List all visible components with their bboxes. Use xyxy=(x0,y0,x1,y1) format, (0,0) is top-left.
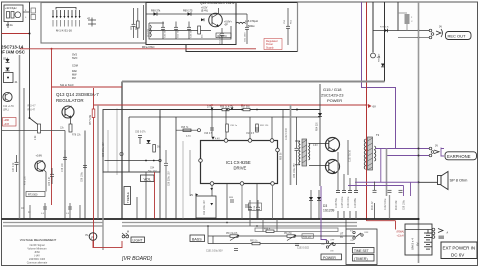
bus line xyxy=(3,225,103,227)
wire B+ feed xyxy=(372,2,374,53)
svg-text:C99 100u 10V: C99 100u 10V xyxy=(204,200,206,215)
node junction xyxy=(418,148,420,150)
svg-text:0.1u: 0.1u xyxy=(254,205,256,210)
IC1 pins top xyxy=(224,139,228,143)
wire riser xyxy=(189,150,191,196)
trimmer block xyxy=(31,15,36,20)
svg-text:R77 1.5k: R77 1.5k xyxy=(89,114,92,125)
wire xyxy=(256,184,258,219)
svg-text:C102 0.047: C102 0.047 xyxy=(286,127,288,140)
wire purple power switch line xyxy=(321,186,326,241)
switch POWER contacts xyxy=(326,241,328,243)
svg-text:+3V8: +3V8 xyxy=(4,124,10,126)
jack EARPHONE plug xyxy=(434,150,439,154)
svg-text:R47: R47 xyxy=(136,25,138,30)
svg-text:+33 15µH: +33 15µH xyxy=(5,6,16,10)
speaker SP xyxy=(438,176,442,185)
svg-text:3V: 3V xyxy=(435,145,438,148)
svg-text:C50 70p: C50 70p xyxy=(178,29,180,38)
resistor R97 xyxy=(243,108,250,111)
connector REC OUT xyxy=(446,32,472,40)
control BASS xyxy=(190,235,205,242)
connector EARPHONE xyxy=(445,152,477,160)
svg-text:0.6V: 0.6V xyxy=(313,145,318,147)
svg-text:R94 220: R94 220 xyxy=(317,122,319,131)
svg-text:EARPHONE: EARPHONE xyxy=(447,154,471,159)
shield bus xyxy=(19,55,21,219)
svg-text:C104 45u: C104 45u xyxy=(355,197,357,208)
svg-text:50u 10V: 50u 10V xyxy=(148,171,157,173)
IC1 block xyxy=(201,141,278,184)
resistor R18 xyxy=(38,124,41,133)
node junction xyxy=(366,104,368,106)
svg-text:SVO: SVO xyxy=(72,57,77,60)
node junction xyxy=(418,155,420,157)
IC1 pin arrow xyxy=(211,137,214,140)
svg-text:C47 0.02: C47 0.02 xyxy=(13,162,15,172)
tuner block outline xyxy=(41,3,146,44)
jack DC plug xyxy=(438,229,443,233)
svg-text:R96 1k: R96 1k xyxy=(220,107,228,109)
box antenna unit xyxy=(4,5,23,22)
wire xyxy=(384,2,386,82)
svg-text:[VR BOARD]: [VR BOARD] xyxy=(121,256,153,262)
oscillator outer wall bottom xyxy=(186,45,298,52)
wire purple drop1 xyxy=(380,149,382,183)
wire xyxy=(282,110,284,219)
svg-text:R79 4.7k: R79 4.7k xyxy=(380,27,390,29)
wire purple B line xyxy=(362,2,396,149)
capacitor C66 xyxy=(50,168,54,184)
capacitor bank plates xyxy=(336,191,358,193)
wire emitter loop xyxy=(44,170,47,192)
wire xyxy=(159,117,161,219)
resistor R99 xyxy=(266,230,274,233)
svg-text:SP 8 Ohm: SP 8 Ohm xyxy=(450,178,468,183)
svg-text:1S1209: 1S1209 xyxy=(323,209,335,213)
diode D2 xyxy=(6,68,10,71)
svg-text:+12uH: +12uH xyxy=(397,234,404,237)
svg-text:R97 560: R97 560 xyxy=(241,107,250,109)
wire xyxy=(23,11,30,13)
voltage arrow 4.7V xyxy=(231,108,234,111)
note voltage measurement xyxy=(20,238,57,265)
wire diagonal xyxy=(30,118,39,125)
svg-text:(R98A): (R98A) xyxy=(397,231,405,234)
resistor R95 xyxy=(153,145,156,153)
switch S1 pin arrows xyxy=(52,16,81,18)
svg-text:TREBLE: TREBLE xyxy=(126,192,130,203)
wire earphone return xyxy=(387,155,431,157)
voltage arrow 3.7V xyxy=(211,108,214,111)
capacitor bank wires xyxy=(337,152,339,190)
resistor R93 xyxy=(256,124,259,132)
svg-text:C98 100u: C98 100u xyxy=(404,199,406,210)
transistor Q16 xyxy=(326,160,340,174)
wire secondary gray xyxy=(386,149,388,197)
node junction xyxy=(366,149,368,151)
wire purple bus2 xyxy=(348,185,404,187)
wire base Q16 xyxy=(309,165,329,167)
svg-text:REGULATOR: REGULATOR xyxy=(56,98,84,103)
svg-text:Q13 Q14 2SD883A-7: Q13 Q14 2SD883A-7 xyxy=(56,92,99,97)
wire base Q15 xyxy=(309,143,329,145)
capacitor C93 xyxy=(256,200,260,219)
svg-text:BASS: BASS xyxy=(192,238,202,242)
gray rail right of IC xyxy=(290,105,292,185)
capacitor C107 xyxy=(347,140,349,175)
wire xyxy=(249,117,251,139)
tone network top wire xyxy=(208,235,355,237)
transistor Q15 xyxy=(326,138,340,152)
battery B1 xyxy=(424,230,432,250)
IC1 pins left xyxy=(199,159,203,163)
ground bus heavy xyxy=(2,218,419,220)
wire xyxy=(70,118,72,125)
svg-text:R100 1M: R100 1M xyxy=(396,201,398,210)
wire osc tank mid xyxy=(149,30,211,32)
svg-text:R76 100: R76 100 xyxy=(25,176,27,185)
IC1 pins bottom xyxy=(210,182,214,186)
wire xyxy=(374,203,376,219)
svg-text:M: M xyxy=(127,232,129,234)
diode D9 xyxy=(210,188,213,190)
svg-text:OFF: OFF xyxy=(364,232,369,234)
svg-text:R95 7k: R95 7k xyxy=(181,127,189,129)
wire xyxy=(2,130,65,132)
svg-text:R68 37k: R68 37k xyxy=(151,10,161,13)
diode D3 xyxy=(309,197,313,200)
wire xyxy=(389,195,391,219)
wire bus vertical xyxy=(29,2,31,118)
wire xyxy=(175,117,177,219)
lamp LIGHT symbol xyxy=(122,235,125,238)
svg-text:C96 220u 10V: C96 220u 10V xyxy=(169,171,171,186)
transistor Q13 xyxy=(62,106,74,118)
svg-text:C103 0.022: C103 0.022 xyxy=(297,248,310,250)
svg-text:3V: 3V xyxy=(340,236,343,239)
svg-text:C97 0.5: C97 0.5 xyxy=(246,133,255,135)
svg-text:EXT POWER IN: EXT POWER IN xyxy=(443,246,476,251)
diode D8 xyxy=(384,29,387,33)
svg-text:UM-2 x 4: UM-2 x 4 xyxy=(411,238,415,250)
wire red 6V rail xyxy=(366,2,368,221)
wire red branch xyxy=(52,86,123,88)
node junction xyxy=(29,33,31,35)
wire xyxy=(211,110,213,137)
node junction xyxy=(418,30,420,32)
resistor R98 xyxy=(302,234,314,238)
svg-text:C67: C67 xyxy=(131,25,133,30)
svg-text:G15 / G18: G15 / G18 xyxy=(323,87,342,92)
chassis ground bus xyxy=(418,2,420,263)
svg-text:R99 4: R99 4 xyxy=(264,228,271,230)
node junction xyxy=(296,109,298,111)
svg-text:C106 50u: C106 50u xyxy=(336,197,338,208)
oscillator outer wall top xyxy=(236,2,298,4)
wire xyxy=(405,229,434,231)
svg-text:R69 175: R69 175 xyxy=(183,10,193,13)
resistor R74 xyxy=(69,124,72,132)
control VOL xyxy=(141,175,155,182)
svg-text:C12 +1.5V: C12 +1.5V xyxy=(3,106,14,108)
svg-text:C95 0.07k: C95 0.07k xyxy=(135,132,146,134)
svg-text:R73 500: R73 500 xyxy=(28,194,38,197)
wire xyxy=(23,88,25,219)
wire stub xyxy=(262,219,264,232)
wire riser xyxy=(182,141,184,219)
transistor Q2 xyxy=(35,161,45,171)
svg-text:C102 100u: C102 100u xyxy=(385,198,387,210)
svg-text:R88 56: R88 56 xyxy=(281,152,283,160)
bus line xyxy=(3,222,103,224)
svg-text:C90 1u: C90 1u xyxy=(230,125,238,127)
svg-text:VOL: VOL xyxy=(144,177,151,181)
svg-text:POWER: POWER xyxy=(327,98,342,103)
wire riser xyxy=(107,130,109,172)
wire xyxy=(226,184,228,219)
svg-text:C94: C94 xyxy=(150,168,155,170)
oscillator block outline xyxy=(146,3,236,45)
svg-text:PR4 50: PR4 50 xyxy=(284,233,292,235)
svg-text:D3: D3 xyxy=(323,204,327,208)
transistor Q1 xyxy=(3,92,12,101)
svg-text:R78 12k: R78 12k xyxy=(72,135,81,137)
node junction xyxy=(418,37,420,39)
wire purple drop3 xyxy=(410,182,412,196)
coil L16 xyxy=(236,22,246,23)
wire xyxy=(145,172,147,219)
wire red long top xyxy=(20,48,256,50)
svg-text:PR3 3k-D5: PR3 3k-D5 xyxy=(226,233,238,235)
potentiometer PR3 xyxy=(230,235,238,238)
svg-text:IC1 CX-925E: IC1 CX-925E xyxy=(226,160,251,165)
resistor R95b xyxy=(183,129,191,132)
coil L1 xyxy=(15,12,21,18)
capacitor C50 xyxy=(174,22,178,40)
wire xyxy=(176,129,200,131)
capacitor C47 xyxy=(15,155,19,172)
svg-text:ON: ON xyxy=(350,240,354,242)
svg-text:R8 1k: R8 1k xyxy=(6,23,13,27)
capacitor C96 xyxy=(164,150,168,219)
boxed label C91 xyxy=(249,203,262,211)
main board left edge xyxy=(121,82,123,219)
lamp PL xyxy=(89,233,97,241)
control TREBLE xyxy=(124,187,131,205)
svg-text:2SC1429-23: 2SC1429-23 xyxy=(321,93,344,98)
svg-text:C109 100u: C109 100u xyxy=(348,196,350,208)
capacitor C67 xyxy=(133,8,135,24)
svg-text:DRIVE: DRIVE xyxy=(234,165,247,170)
regulated supply note xyxy=(264,39,282,50)
capacitor C49 xyxy=(187,22,191,40)
switch S1 pin bracket xyxy=(56,8,76,10)
potentiometer PR4 xyxy=(287,235,295,238)
wire xyxy=(146,13,247,15)
wire xyxy=(241,185,243,218)
jack REC OUT plug xyxy=(436,29,443,37)
svg-text:+28R: +28R xyxy=(4,120,10,122)
terminal B+ xyxy=(371,53,376,58)
svg-text:FM: FM xyxy=(72,77,76,80)
wire xyxy=(207,226,209,244)
trimmer block xyxy=(31,8,36,13)
svg-text:S11 to S1-D: S11 to S1-D xyxy=(60,84,74,87)
node junction xyxy=(29,117,31,119)
potentiometer PR5 xyxy=(252,242,260,245)
boxed red note xyxy=(3,118,17,127)
svg-text:C98 100u 10V: C98 100u 10V xyxy=(103,142,105,157)
svg-text:REC OUT: REC OUT xyxy=(448,34,467,39)
transistor Q12 xyxy=(209,13,223,27)
battery compartment xyxy=(405,224,432,255)
svg-text:Common alternate: Common alternate xyxy=(27,262,48,265)
capacitor C99 box xyxy=(196,196,216,218)
svg-text:C76 100: C76 100 xyxy=(62,163,64,172)
resistor R71 xyxy=(216,33,231,38)
svg-text:VOLTAGE MEASUREMENT: VOLTAGE MEASUREMENT xyxy=(20,238,57,242)
svg-text:COM: COM xyxy=(72,65,78,68)
jack EARPHONE contacts xyxy=(429,147,432,150)
wire speaker xyxy=(419,181,438,183)
svg-text:C105 100u: C105 100u xyxy=(342,196,344,208)
svg-text:Supply: Supply xyxy=(266,46,274,49)
svg-text:R91 120: R91 120 xyxy=(260,125,269,127)
wire rec out top xyxy=(373,30,431,32)
node junction xyxy=(207,225,209,227)
diode D4 xyxy=(147,140,151,143)
switch TIMER label box xyxy=(353,255,375,262)
output transformer T3 xyxy=(364,137,376,170)
svg-text:R15 4.7: R15 4.7 xyxy=(28,106,37,108)
jack REC OUT contacts xyxy=(429,29,432,32)
svg-text:(3PL): (3PL) xyxy=(3,110,9,112)
wire red VR feed xyxy=(93,88,95,247)
main board top edge xyxy=(122,81,385,83)
svg-text:C107 50/16: C107 50/16 xyxy=(350,149,352,162)
svg-text:-0P: -0P xyxy=(224,24,228,27)
resistor R77 xyxy=(92,109,95,118)
wire xyxy=(143,5,145,40)
capacitor C89 xyxy=(230,200,234,202)
capacitor C84 xyxy=(295,117,299,185)
svg-text:M-1 K-S1-16: M-1 K-S1-16 xyxy=(56,29,72,33)
diode D7 xyxy=(201,18,204,21)
RC network right xyxy=(372,198,406,210)
oscillator outer wall right xyxy=(297,3,299,52)
wire xyxy=(7,22,9,29)
resistor R73 box xyxy=(26,192,45,197)
capacitor C86 xyxy=(83,166,87,168)
wire purple bus1 xyxy=(355,181,419,183)
node junction xyxy=(418,181,420,183)
wire xyxy=(225,110,227,139)
wire xyxy=(136,197,138,219)
capacitor C56 xyxy=(286,8,290,45)
svg-text:PR5 1k: PR5 1k xyxy=(250,241,258,243)
svg-text:(TIMER): (TIMER) xyxy=(354,257,368,261)
driver transformer T2 xyxy=(295,139,310,166)
svg-text:C66 0.47: C66 0.47 xyxy=(49,176,51,186)
wire xyxy=(345,219,347,229)
svg-text:6V: 6V xyxy=(373,105,377,109)
capacitor C2 xyxy=(11,12,14,19)
wire stub xyxy=(276,219,278,232)
capacitor C51 xyxy=(220,28,224,44)
stub component xyxy=(30,203,80,219)
wire xyxy=(272,185,274,218)
connector EXT POWER xyxy=(441,242,477,259)
svg-text:TIME SET: TIME SET xyxy=(354,249,369,253)
svg-text:C51 30/35: C51 30/35 xyxy=(220,33,222,44)
switch POWER label box xyxy=(321,254,342,260)
cable duct xyxy=(255,228,338,232)
diode D1 xyxy=(6,59,10,62)
svg-text:LIGHT: LIGHT xyxy=(133,239,143,243)
svg-text:C49 30p: C49 30p xyxy=(191,29,193,38)
svg-text:+0.6V: +0.6V xyxy=(36,155,43,158)
wire osc tank top xyxy=(149,22,164,24)
audio section top edge xyxy=(129,116,320,118)
IF transformer T4 xyxy=(4,73,14,83)
svg-text:OFF: OFF xyxy=(330,240,335,242)
switch TIME SET box xyxy=(353,248,375,254)
svg-text:4.7V: 4.7V xyxy=(228,105,233,108)
trimmer TC1 xyxy=(88,18,96,27)
svg-text:IF /AM OSC: IF /AM OSC xyxy=(1,50,26,55)
node junction xyxy=(256,225,258,227)
coil L13 xyxy=(150,25,151,37)
switch TIMER contacts xyxy=(353,231,355,233)
resistor R80 block xyxy=(405,14,410,24)
svg-text:R16 47: R16 47 xyxy=(28,110,36,112)
control LIGHT xyxy=(131,237,145,243)
wire purple drop2 xyxy=(403,186,405,197)
jack DC contacts xyxy=(432,228,435,231)
bus line xyxy=(160,109,320,111)
wire osc tank bottom xyxy=(149,23,231,39)
svg-text:C86 100u: C86 100u xyxy=(82,171,84,182)
wire preamp mid xyxy=(105,160,161,162)
node junction red xyxy=(51,48,53,50)
resistor R47 xyxy=(137,8,139,21)
wire xyxy=(319,84,321,186)
svg-text:3.7V: 3.7V xyxy=(186,136,191,138)
switch S1 pins xyxy=(53,10,80,17)
switch S1 pin name smudges xyxy=(53,20,80,27)
wire red supply xyxy=(2,33,30,35)
svg-text:4.4V: 4.4V xyxy=(215,139,220,141)
svg-text:POWER: POWER xyxy=(323,256,336,260)
wire gray riser xyxy=(102,172,104,250)
capacitor C81 xyxy=(245,14,249,44)
svg-text:R80 220: R80 220 xyxy=(379,53,381,62)
svg-text:ON: ON xyxy=(330,251,334,253)
wire xyxy=(271,117,273,139)
diode D3b xyxy=(317,197,321,200)
wire red rail xyxy=(94,104,367,106)
wire rec out bottom xyxy=(398,37,431,39)
svg-text:(E-4V): (E-4V) xyxy=(201,10,208,13)
wire stub xyxy=(249,219,251,226)
svg-text:0V: 0V xyxy=(439,26,442,29)
wire xyxy=(211,185,213,196)
svg-text:L13 700: L13 700 xyxy=(148,28,150,37)
wire xyxy=(426,232,434,234)
preamp box xyxy=(103,110,160,173)
IC1 pins right xyxy=(276,148,280,152)
